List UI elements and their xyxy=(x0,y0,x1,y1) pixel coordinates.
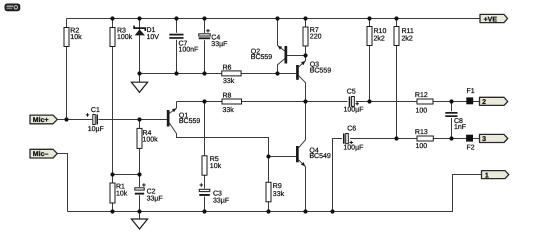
svg-text:33k: 33k xyxy=(223,106,235,114)
svg-text:BC559: BC559 xyxy=(251,54,273,61)
svg-text:2k2: 2k2 xyxy=(374,34,385,42)
svg-text:33k: 33k xyxy=(273,190,285,198)
svg-text:R6: R6 xyxy=(223,64,232,71)
svg-text:BC559: BC559 xyxy=(179,118,201,125)
svg-text:R10: R10 xyxy=(374,28,387,35)
svg-text:10k: 10k xyxy=(116,190,128,198)
svg-text:Mic+: Mic+ xyxy=(33,116,49,124)
svg-text:BC559: BC559 xyxy=(310,67,332,74)
svg-text:Mic–: Mic– xyxy=(33,150,49,158)
svg-text:100µF: 100µF xyxy=(344,106,364,113)
svg-text:100µF: 100µF xyxy=(343,145,363,152)
svg-text:R13: R13 xyxy=(415,129,428,136)
svg-text:100: 100 xyxy=(416,143,428,150)
svg-text:10µF: 10µF xyxy=(88,126,104,133)
svg-text:+VE: +VE xyxy=(484,16,498,23)
svg-text:3: 3 xyxy=(482,136,486,143)
svg-text:C6: C6 xyxy=(347,125,356,132)
svg-text:F1: F1 xyxy=(467,88,475,95)
svg-text:33k: 33k xyxy=(223,77,235,85)
svg-text:10k: 10k xyxy=(70,33,82,41)
svg-text:2k2: 2k2 xyxy=(402,34,413,42)
svg-text:1nF: 1nF xyxy=(454,124,466,131)
svg-text:10V: 10V xyxy=(147,34,160,41)
svg-text:R9: R9 xyxy=(273,183,282,190)
svg-text:C2: C2 xyxy=(147,188,156,195)
svg-text:F2: F2 xyxy=(467,145,475,152)
svg-text:33µF: 33µF xyxy=(147,195,163,202)
svg-text:BC549: BC549 xyxy=(309,153,331,160)
svg-text:100: 100 xyxy=(416,107,428,114)
svg-text:100k: 100k xyxy=(117,33,133,41)
svg-text:1: 1 xyxy=(485,172,489,179)
svg-text:R12: R12 xyxy=(415,92,428,99)
svg-text:C5: C5 xyxy=(347,88,356,95)
svg-text:C1: C1 xyxy=(91,107,100,114)
svg-text:100nF: 100nF xyxy=(179,46,199,53)
svg-text:2: 2 xyxy=(482,99,486,106)
svg-text:220: 220 xyxy=(310,34,322,41)
svg-text:33µF: 33µF xyxy=(211,41,227,48)
svg-text:R11: R11 xyxy=(402,28,414,35)
svg-text:10k: 10k xyxy=(210,162,222,170)
svg-text:R8: R8 xyxy=(223,93,232,100)
svg-text:33µF: 33µF xyxy=(213,197,229,204)
svg-text:100k: 100k xyxy=(143,136,159,144)
